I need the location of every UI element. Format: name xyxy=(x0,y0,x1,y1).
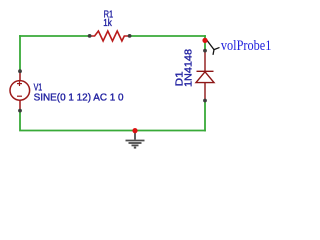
svg-text:1N4148: 1N4148 xyxy=(183,49,194,87)
svg-text:volProbe1: volProbe1 xyxy=(221,38,272,54)
svg-text:SINE(0 1 12) AC 1 0: SINE(0 1 12) AC 1 0 xyxy=(34,92,124,103)
svg-text:1k: 1k xyxy=(103,18,112,29)
